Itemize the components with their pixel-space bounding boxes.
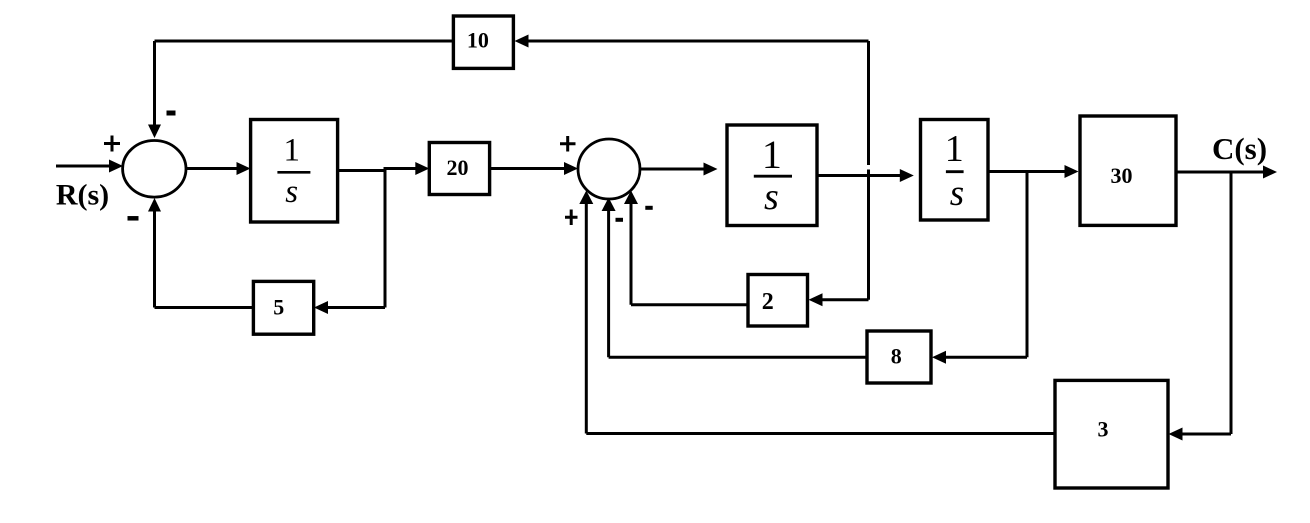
arrowhead into G1 <box>237 162 251 175</box>
svg-text:s: s <box>764 176 779 218</box>
block H5 "3" <box>1055 380 1168 488</box>
wire input R(s) <box>56 165 111 168</box>
arrowhead into G3 <box>704 163 718 176</box>
svg-text:1: 1 <box>283 132 300 168</box>
wire G5 out to C(s) <box>1176 171 1265 174</box>
sign minus at S2 bottom-right <box>645 206 652 210</box>
wire tap to G2 <box>384 167 419 170</box>
wire G3 out <box>817 174 902 177</box>
arrowhead into S1 bottom <box>148 198 161 212</box>
arrowhead into S1 left <box>109 160 123 173</box>
arrowhead into H2 <box>314 301 328 314</box>
svg-text:s: s <box>285 174 298 210</box>
arrowhead S2 bottom-right from H3 <box>624 191 638 205</box>
wire H2 out to left <box>155 306 254 309</box>
wire top row into H1 <box>527 40 869 43</box>
wire H1 out to left <box>155 40 454 43</box>
arrowhead into S2 left <box>564 162 578 175</box>
block G1 "1/s" <box>251 120 338 223</box>
wire tap up from G3 out to top row <box>867 41 870 165</box>
fraction G4 bar <box>946 170 964 173</box>
svg-text:3: 3 <box>1098 417 1109 442</box>
fraction G1 bar <box>277 171 310 174</box>
arrowhead output C(s) <box>1263 166 1277 179</box>
arrowhead S2 bottom-left from H5 <box>579 191 593 205</box>
wire G2 to S2 <box>490 167 567 170</box>
arrowhead into G4 <box>900 169 914 182</box>
sign minus at S1 bottom <box>128 216 139 221</box>
arrowhead into S1 top <box>148 125 161 139</box>
wire up into S2 bottom middle <box>607 209 610 357</box>
wire into H4 <box>944 356 1027 359</box>
wire into H3 <box>821 298 869 301</box>
wire up into S2 bottom left <box>585 202 588 434</box>
arrowhead into H4 <box>932 351 946 364</box>
block G2 "20" <box>429 143 489 195</box>
sign minus at S2 bottom-middle <box>616 218 624 222</box>
wire up into S2 bottom right <box>630 202 633 305</box>
block H3 "2" <box>748 275 808 327</box>
sign minus at S1 top <box>167 111 176 116</box>
svg-text:20: 20 <box>447 155 469 180</box>
wire tap down to H2 row <box>384 169 387 308</box>
wire H5 out to left <box>586 432 1055 435</box>
summing junction S1 <box>123 141 186 198</box>
sign plus at S2 input <box>560 136 576 152</box>
arrowhead S2 bottom-middle from H4 <box>602 198 616 212</box>
wire S2 out <box>640 168 705 171</box>
wire into H2 <box>327 306 385 309</box>
block G5 "30" <box>1080 116 1176 225</box>
wire tap down to H4 row <box>1026 172 1029 358</box>
wire G1 out to tap <box>338 169 386 172</box>
wire into H5 <box>1181 433 1231 436</box>
arrowhead into G2 <box>415 162 429 175</box>
sign plus at S2 bottom-left <box>565 210 578 226</box>
svg-text:30: 30 <box>1111 163 1133 188</box>
arrowhead into H1 <box>515 35 529 48</box>
block G4 "1/s" <box>921 120 989 221</box>
wire up into S1 bottom <box>153 209 156 308</box>
block H4 "8" <box>867 331 931 383</box>
block H1 "10" <box>453 16 513 68</box>
fraction G3 bar <box>754 175 792 178</box>
wire tap down from G3 out to H3 row <box>867 170 870 300</box>
arrowhead into H5 <box>1169 428 1183 441</box>
wire tap down to H5 row <box>1230 172 1233 434</box>
wire H4 out to left <box>609 356 867 359</box>
wire S1 to G1 <box>186 167 239 170</box>
svg-text:1: 1 <box>945 128 964 170</box>
arrowhead into H3 <box>809 293 823 306</box>
block G3 "1/s" <box>727 125 817 226</box>
block H2 "5" <box>253 281 313 334</box>
svg-text:R(s): R(s) <box>56 179 109 212</box>
wire down into S1 top <box>153 41 156 126</box>
svg-text:2: 2 <box>762 289 774 315</box>
svg-text:10: 10 <box>467 28 489 53</box>
svg-text:1: 1 <box>762 132 782 177</box>
summing junction S2 <box>578 139 640 199</box>
svg-text:8: 8 <box>891 344 902 369</box>
arrowhead into G5 <box>1065 165 1079 178</box>
svg-text:s: s <box>950 173 964 214</box>
wire G4 out <box>988 170 1067 173</box>
svg-text:5: 5 <box>273 295 284 320</box>
sign plus at S1 input <box>104 136 120 152</box>
svg-text:C(s): C(s) <box>1212 131 1267 166</box>
wire H3 out to left <box>631 303 748 306</box>
